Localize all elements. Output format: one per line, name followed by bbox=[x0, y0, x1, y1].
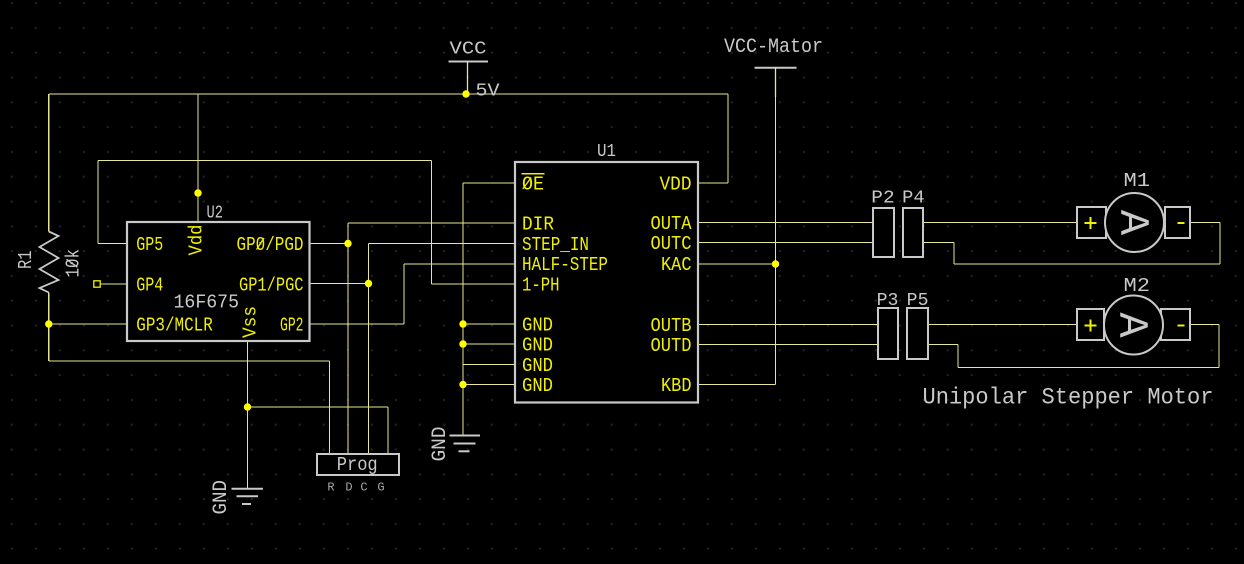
svg-text:OUTC: OUTC bbox=[651, 233, 692, 255]
svg-text:GND: GND bbox=[522, 375, 553, 397]
svg-text:GP2: GP2 bbox=[280, 315, 304, 337]
wire OUTD jog down bbox=[957, 345, 959, 368]
wire VDD stub bbox=[698, 182, 728, 184]
wire OUTB left of P3 bbox=[698, 324, 878, 326]
wire DIR vertical bbox=[347, 223, 349, 244]
junction MCLR bbox=[45, 320, 52, 327]
U1 pin OE zero slash bbox=[523, 178, 531, 190]
IC U1 body bbox=[515, 162, 698, 403]
wire M1 minus vertical bbox=[1219, 223, 1221, 265]
svg-text:Vss: Vss bbox=[240, 306, 262, 338]
svg-text:OUTB: OUTB bbox=[651, 315, 692, 337]
svg-text:R: R bbox=[327, 481, 334, 495]
open end square GP4 bbox=[94, 281, 100, 287]
wire KAC bbox=[698, 263, 776, 265]
U2 pin GP0 zero slash bbox=[257, 238, 265, 250]
M1 minus sign bbox=[1178, 222, 1185, 224]
wire 1-PH vertical bbox=[431, 161, 433, 285]
wire M2 minus horizontal bbox=[1190, 324, 1219, 326]
junction Vdd pin bbox=[194, 189, 201, 196]
svg-text:P4: P4 bbox=[902, 189, 925, 209]
svg-text:KAC: KAC bbox=[661, 254, 692, 276]
wire Vss vertical bbox=[247, 341, 249, 488]
ground symbol right bbox=[450, 436, 481, 452]
svg-text:A: A bbox=[1107, 312, 1155, 338]
wire GP1/PGC row bbox=[310, 283, 369, 285]
motor M2 plus terminal box bbox=[1077, 309, 1104, 340]
svg-text:Vdd: Vdd bbox=[186, 225, 208, 256]
wire VCC rail bbox=[49, 93, 728, 95]
resistor R1 value zero slash bbox=[67, 259, 78, 267]
svg-text:U2: U2 bbox=[207, 204, 224, 224]
resistor R1 bbox=[40, 232, 59, 293]
wire OE-GND bus vertical bbox=[462, 183, 464, 435]
connector P2 bbox=[873, 208, 894, 257]
svg-text:Prog: Prog bbox=[337, 454, 378, 476]
junction GP0/PGD bbox=[344, 240, 351, 247]
wire R1 bottom lead bbox=[48, 293, 50, 325]
power symbol VCC-Motor bbox=[755, 68, 797, 97]
wire GP5 to 1-PH horizontal bbox=[98, 160, 432, 162]
wire Prog pin C vertical bbox=[368, 284, 370, 455]
connector P3 bbox=[878, 308, 898, 359]
svg-text:Unipolar Stepper Motor: Unipolar Stepper Motor bbox=[923, 385, 1214, 412]
wire M2 minus vertical bbox=[1218, 325, 1220, 368]
wire GP4 stub bbox=[97, 283, 127, 285]
svg-text:R1: R1 bbox=[15, 251, 37, 270]
svg-text:GP1/PGC: GP1/PGC bbox=[239, 275, 304, 297]
wire HALF-STEP vertical bbox=[403, 264, 405, 324]
svg-text:GND: GND bbox=[522, 315, 553, 337]
IC U2 body bbox=[127, 222, 310, 341]
wire MCLR to Prog horizontal bbox=[49, 360, 330, 362]
wire OUTD return horizontal bbox=[958, 367, 1219, 369]
ground symbol left bbox=[232, 489, 264, 504]
svg-text:KBD: KBD bbox=[661, 375, 692, 397]
U1 pin OE overline bbox=[522, 173, 545, 175]
wire R1 top lead bbox=[48, 94, 50, 232]
connector Prog box bbox=[317, 454, 399, 475]
wire Vss to Prog G horizontal bbox=[248, 406, 389, 408]
wire HALF-STEP into U1 bbox=[404, 263, 515, 265]
wire GND stub 3 bbox=[463, 364, 515, 366]
svg-text:G: G bbox=[377, 481, 384, 495]
wire OUTC return horizontal bbox=[954, 263, 1220, 265]
wire OUTB to M2 plus bbox=[928, 324, 1077, 326]
M1 plus sign bbox=[1085, 217, 1097, 229]
M2 plus sign bbox=[1085, 320, 1097, 332]
wire OE into U1 bbox=[463, 182, 515, 184]
wire Prog pin R vertical bbox=[329, 361, 331, 454]
power symbol VCC bbox=[449, 62, 489, 95]
M2 minus sign bbox=[1178, 325, 1185, 327]
motor M2 circle bbox=[1104, 296, 1163, 355]
svg-text:16F675: 16F675 bbox=[174, 292, 240, 314]
wire Prog pin G vertical bbox=[387, 407, 389, 454]
junction Vss bbox=[244, 403, 251, 410]
svg-text:1-PH: 1-PH bbox=[522, 275, 560, 297]
wire GND stub 2 bbox=[463, 343, 515, 345]
wire VDD riser to rail bbox=[727, 94, 729, 183]
wire GP5 stub bbox=[98, 243, 127, 245]
wire Prog pin D vertical bbox=[347, 244, 349, 455]
junction KAC VCC-Motor bbox=[772, 260, 779, 267]
motor M1 circle bbox=[1105, 193, 1164, 252]
wire GND stub 1 bbox=[463, 323, 515, 325]
svg-text:VCC-Mator: VCC-Mator bbox=[724, 36, 823, 59]
wire VCC-Motor vertical bbox=[775, 97, 777, 385]
wire 1-PH into U1 bbox=[432, 283, 516, 285]
wire M1 minus horizontal bbox=[1190, 222, 1220, 224]
svg-text:C: C bbox=[360, 481, 367, 495]
wire STEP_IN vertical bbox=[368, 244, 370, 284]
wire GP0/PGD row bbox=[310, 243, 349, 245]
wire GND stub 4 bbox=[463, 384, 515, 386]
connector P5 bbox=[907, 308, 928, 359]
svg-text:D: D bbox=[345, 481, 352, 495]
svg-text:GP5: GP5 bbox=[136, 234, 163, 256]
motor M2 minus terminal box bbox=[1161, 309, 1190, 340]
svg-text:U1: U1 bbox=[597, 142, 616, 162]
wire OUTC left of P2 bbox=[698, 242, 873, 244]
svg-text:OUTD: OUTD bbox=[651, 335, 692, 357]
wire OUTA to M1 plus bbox=[923, 222, 1077, 224]
wire OUTA left of P2 bbox=[698, 222, 873, 224]
svg-text:GP0/PGD: GP0/PGD bbox=[237, 234, 304, 256]
svg-text:OUTA: OUTA bbox=[651, 213, 692, 235]
wire GP3/MCLR net horizontal bbox=[49, 323, 127, 325]
svg-text:GND: GND bbox=[210, 480, 233, 515]
wire GP5 vertical bbox=[97, 161, 99, 244]
wire STEP_IN into U1 bbox=[369, 243, 516, 245]
svg-text:10k: 10k bbox=[63, 249, 85, 278]
junction GND4 bbox=[459, 381, 466, 388]
wire OUTC after P4 bbox=[923, 242, 954, 244]
wire Vdd riser bbox=[197, 94, 199, 222]
wire GP2 row bbox=[310, 323, 405, 325]
svg-text:STEP_IN: STEP_IN bbox=[522, 234, 589, 256]
junction GND2 bbox=[459, 340, 466, 347]
motor M1 minus terminal box bbox=[1165, 207, 1190, 238]
svg-text:P2: P2 bbox=[871, 189, 894, 209]
wire OUTC jog down bbox=[953, 243, 955, 265]
wire OUTD after P5 bbox=[928, 344, 958, 346]
wire KBD bbox=[698, 384, 776, 386]
svg-text:M2: M2 bbox=[1124, 275, 1151, 297]
motor M1 plus terminal box bbox=[1077, 207, 1106, 238]
junction GP1/PGC bbox=[365, 280, 372, 287]
svg-text:M1: M1 bbox=[1124, 170, 1151, 192]
svg-text:HALF-STEP: HALF-STEP bbox=[522, 254, 608, 276]
wire MCLR down segment bbox=[48, 324, 50, 361]
svg-text:VDD: VDD bbox=[660, 174, 692, 196]
svg-text:A: A bbox=[1108, 210, 1156, 236]
svg-text:P5: P5 bbox=[907, 291, 929, 311]
svg-text:VCC: VCC bbox=[450, 40, 487, 60]
svg-text:GND: GND bbox=[429, 427, 452, 462]
junction GND1 bbox=[459, 320, 466, 327]
wire DIR into U1 bbox=[348, 222, 515, 224]
svg-text:5V: 5V bbox=[476, 82, 500, 102]
connector P4 bbox=[903, 208, 923, 257]
svg-text:GP3/MCLR: GP3/MCLR bbox=[136, 315, 213, 337]
svg-text:DIR: DIR bbox=[522, 214, 554, 236]
junction 5V on rail bbox=[462, 90, 469, 97]
svg-text:GND: GND bbox=[522, 355, 553, 377]
svg-text:GND: GND bbox=[522, 335, 553, 357]
svg-text:GP4: GP4 bbox=[136, 275, 163, 297]
wire OUTD left of P3 bbox=[698, 344, 878, 346]
svg-text:P3: P3 bbox=[877, 291, 899, 311]
